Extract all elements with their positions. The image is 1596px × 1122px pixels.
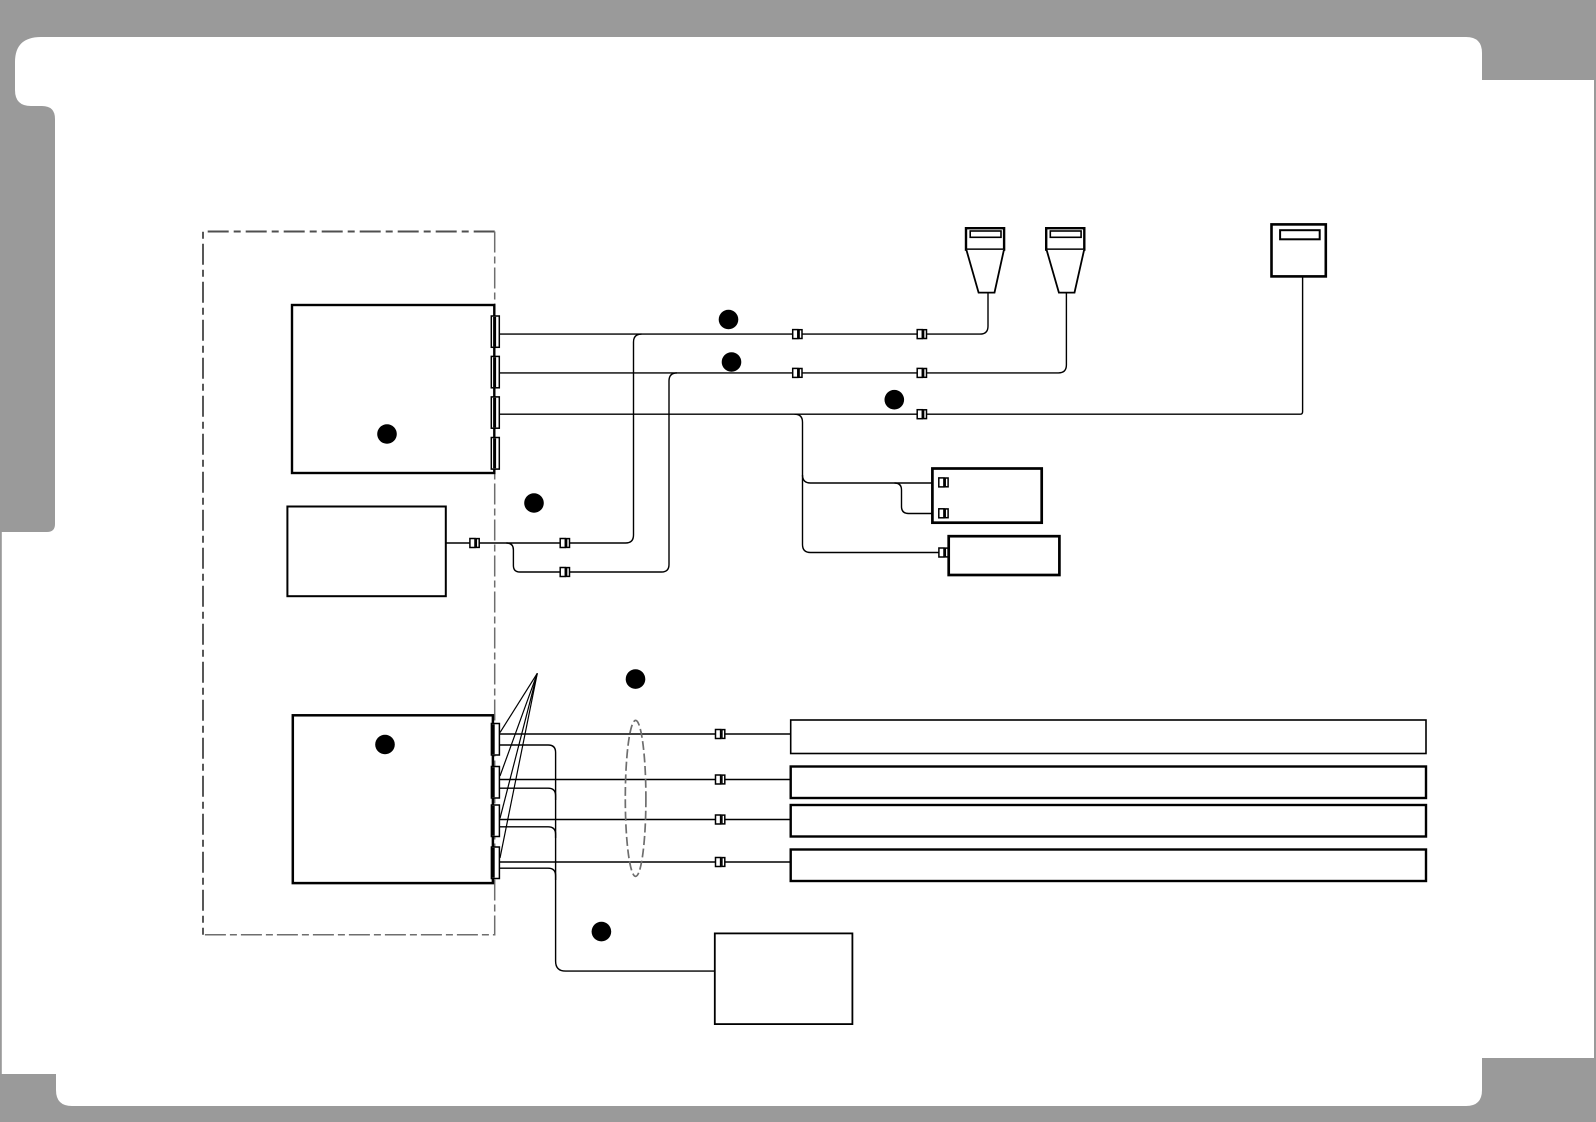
box B4 AV device right lower [949,536,1060,575]
port P5 on box B5 [491,724,499,756]
connector J10 box3 lower port [939,509,948,518]
connector J8 on W5 [560,568,569,577]
port P2 on box B1 [491,356,499,387]
callout dot D7 inside box B5 [375,735,395,755]
wire W3 from box1 port3 to square connector [499,276,1302,414]
box B6 bottom device [715,933,853,1024]
connector J5 on W3 [917,410,926,419]
wire L4 to bar4 [499,861,790,863]
wire W1 from box1 port1 to plug1 [499,293,988,335]
wire W8 s-curve to box3 lower port [895,483,941,514]
connector J6 on box2 wire [470,539,479,548]
wire W7 branch to box3 upper port [803,475,941,483]
box B5 lower device (inside dashed outline) [293,715,493,883]
fan line F1 [500,673,537,732]
connector J10b box3 lower port redrawn [939,509,948,518]
speaker bar SB4 [791,850,1426,882]
connector J4 on W2 right [917,368,926,377]
connector J13 on L2 [716,775,725,784]
fan line F4 [500,673,537,858]
connector J7 on W4 [560,539,569,548]
box B1 source device (top, inside dashed outline) [292,305,494,473]
fan line F2 [500,673,537,776]
speaker bar SB2 [791,767,1426,799]
callout dot D4 inside box B1 [377,424,397,444]
wire W6 branch from W3 down to box4 port [795,414,941,552]
port P4 on box B1 [491,438,499,470]
dashed projector outline box (right/bottom lighter) [203,232,495,935]
wire C1 audio bus from port1 down to box6 [499,745,714,971]
fan line F3 [500,673,537,818]
connector J15 on L4 [716,858,725,867]
port P8 on box B5 [491,847,499,879]
callout dot D5 near box2 wire [524,493,544,513]
cable bundle ellipse [625,720,646,876]
callout dot D6 above ellipse [626,669,646,689]
box B3 AV device right [932,469,1041,523]
wire C4 joins bus [499,868,555,880]
callout dot D1 above W1 [719,310,739,330]
speaker bar SB1 [791,720,1426,754]
port P7 on box B5 [491,805,499,837]
callout dot D3 above W3 [885,390,905,410]
speaker bar SB3 [791,805,1426,837]
box B2 second source device [287,507,445,597]
connector J11 box4 port [939,548,948,557]
wire C3 joins bus [499,827,555,838]
connector J3 on W2 left [793,368,802,377]
connector J9 box3 upper port [939,478,948,487]
connector J9b box3 upper port redrawn [939,478,948,487]
connector J14 on L3 [716,815,725,824]
plug CN1 head [966,228,1004,292]
port P1 on box B1 [491,316,499,347]
wire W5 branch from box2 wire rising to join W2 [506,373,677,572]
port P6 on box B5 [491,767,499,799]
wire L2 to bar2 [499,779,790,781]
connector J2 on W1 right [917,330,926,339]
wire L3 to bar3 [499,819,790,821]
wire L1 to bar1 [499,733,790,735]
connector J1 on W1 left [793,330,802,339]
callout dot D2 above W2 [722,352,742,372]
callout dot D8 left of box B6 [592,922,612,942]
wire C2 joins bus [499,788,555,800]
port P3 on box B1 [491,397,499,428]
connector J12 on L1 [716,730,725,739]
plug CN2 head [1046,228,1084,292]
wire W4 from box2 rising to join W1 [446,334,642,543]
dashed projector outline box (left/top darker) [203,232,495,935]
square connector CN3 [1272,224,1326,276]
wire W2 from box1 port2 to plug2 [499,293,1066,373]
